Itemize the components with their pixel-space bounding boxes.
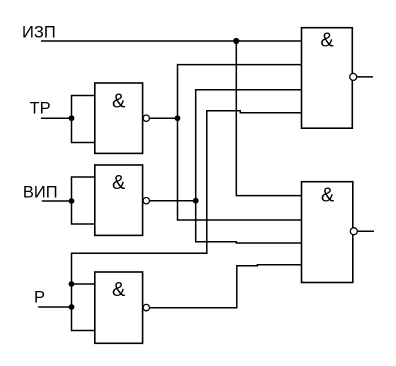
NAND gate U4 body [302,28,353,129]
junction: ИЗП branch node [233,38,239,44]
wire: Р net bracket and riser to U4 input 4 [72,111,302,331]
wire: ИЗП branch down to U5 input 1 [236,41,301,196]
U5 inverter bubble [350,228,357,235]
wire: U2 output net to U4 input 3 and U5 input 3 [196,90,302,243]
junction: U2 output node [193,198,199,204]
svg-text:&: & [112,172,126,194]
svg-text:ТР: ТР [30,100,51,118]
svg-text:ВИП: ВИП [23,183,58,201]
wire: ТР input stub [41,117,72,119]
junction: Р branch node to U3 pin 1 [69,281,75,287]
svg-text:Р: Р [34,289,45,307]
NAND gate U5 body [302,182,353,283]
svg-text:&: & [321,185,335,207]
U2 inverter bubble [143,198,149,204]
junction: Р input node [69,304,75,310]
wire: ТР input bracket to U1 pins [72,96,95,143]
wire: U2 output to node [150,200,196,202]
svg-text:ИЗП: ИЗП [22,24,56,42]
wire: U3 output to U5 input 4 [150,265,302,308]
junction: ВИП input node [69,198,75,204]
junction: ТР input node [69,115,75,121]
NAND gate U3 body [95,272,143,343]
NAND gate U1 body [95,83,143,153]
wire: Р input stub [38,306,71,308]
U4 inverter bubble [350,73,357,80]
wire: Р branch to U3 top pin [72,283,95,285]
wire: U4 output stub [357,76,373,78]
wire: U5 output stub [357,230,374,232]
NAND gate U2 body [95,165,143,235]
wire: ВИП input stub [42,200,72,202]
U3 inverter bubble [143,304,149,310]
U1 inverter bubble [143,115,149,121]
wire: ВИП input bracket to U2 pins [72,177,95,224]
wire: U1 output net to U4 input 2 and U5 input 2 [178,65,302,220]
svg-text:&: & [112,279,126,301]
wire: net ИЗП horizontal to U4 input 1 [41,40,302,42]
svg-text:&: & [112,90,126,112]
wire: U1 output to node [150,117,178,119]
junction: U1 output node [175,115,181,121]
svg-text:&: & [320,30,334,52]
